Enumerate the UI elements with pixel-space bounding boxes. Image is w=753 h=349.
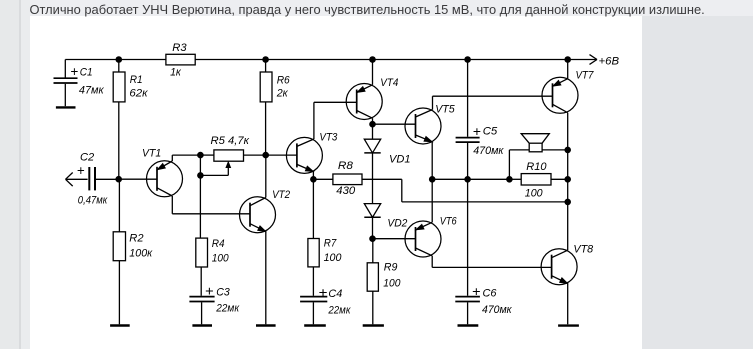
svg-text:VT3: VT3 — [319, 131, 338, 143]
node speaker right column — [565, 147, 571, 153]
label VT8 — [573, 243, 593, 255]
wire VT8 collector to feedback node — [567, 202, 569, 250]
svg-text:R1: R1 — [130, 74, 143, 86]
svg-text:+: + — [70, 64, 78, 79]
wire VT3 emitter to node — [312, 172, 314, 180]
transistor VT4 — [346, 84, 382, 120]
wire C5 column from rail — [467, 60, 469, 137]
wire node to VT5 base — [373, 123, 416, 125]
svg-text:62к: 62к — [129, 87, 148, 99]
svg-text:100: 100 — [383, 277, 401, 289]
node rail-VT7 emitter — [565, 57, 571, 63]
svg-text:C3: C3 — [216, 286, 230, 298]
wire VT8 emitter to ground — [567, 284, 569, 325]
wire N1 to N2 — [199, 155, 201, 175]
svg-text:1к: 1к — [170, 67, 181, 79]
svg-text:VD1: VD1 — [389, 153, 411, 165]
resistor R1 — [113, 60, 125, 180]
wire VT1 emitter to node N1 — [172, 155, 200, 161]
label R6 value — [276, 74, 291, 99]
label C6 value — [472, 284, 512, 316]
svg-text:100: 100 — [324, 252, 342, 264]
svg-text:VT1: VT1 — [142, 148, 161, 160]
capacitor C3 — [189, 297, 214, 325]
input terminal arrow — [66, 173, 88, 187]
ground R2 — [110, 324, 130, 326]
svg-text:100к: 100к — [129, 247, 152, 259]
capacitor C4 — [300, 297, 327, 325]
power terminal +6V arrow — [590, 55, 598, 65]
label VD2 — [387, 218, 408, 230]
wire VT6 collector to VT8 base — [432, 256, 551, 268]
svg-text:22мк: 22мк — [328, 305, 351, 317]
transistor VT3 — [286, 137, 322, 173]
resistor R2 — [113, 179, 125, 324]
diode VD1 — [364, 124, 380, 203]
transistor VT7 — [542, 77, 578, 113]
svg-text:R4: R4 — [212, 238, 225, 250]
ground R9 — [363, 324, 384, 326]
svg-text:C6: C6 — [483, 287, 498, 299]
label R3 value — [170, 42, 187, 79]
wire N3 to VT3 base — [266, 154, 297, 156]
svg-text:C2: C2 — [80, 152, 95, 164]
label C2 value — [77, 152, 108, 207]
resistor R3 — [166, 54, 195, 65]
svg-text:R8: R8 — [338, 160, 354, 172]
label C5 value — [473, 124, 504, 157]
svg-text:VT2: VT2 — [272, 189, 291, 201]
svg-text:VD2: VD2 — [387, 218, 408, 230]
node rail-R1 — [116, 57, 122, 63]
ground C1 — [56, 106, 76, 108]
svg-text:VT4: VT4 — [380, 77, 398, 89]
svg-text:R3: R3 — [172, 42, 187, 54]
capacitor C2 — [89, 167, 118, 190]
resistor R10 — [509, 174, 567, 185]
node rail-VT4 emitter — [370, 57, 376, 63]
svg-text:C5: C5 — [483, 126, 498, 138]
label R7 value — [324, 238, 342, 265]
capacitor C5 — [456, 138, 480, 296]
ground VT8 emitter — [558, 324, 579, 326]
node VT3 emitter — [311, 177, 317, 183]
speaker BA1 — [509, 134, 567, 152]
svg-text:+6В: +6В — [599, 56, 620, 68]
node VT1 base — [116, 176, 122, 182]
svg-text:VT6: VT6 — [440, 215, 458, 227]
label R8 value — [336, 160, 356, 197]
label R10 value — [525, 161, 547, 200]
node rail-C5 — [465, 57, 471, 63]
node output column feedback — [565, 199, 571, 205]
wire VT4 emitter to rail — [372, 60, 374, 85]
svg-text:C1: C1 — [80, 67, 93, 79]
wire VT2 collector to N3 — [265, 155, 267, 197]
wire R10 node to feedback node — [567, 179, 569, 202]
label +6V — [599, 56, 620, 68]
label R4 value — [212, 238, 229, 265]
wire N2 down to R4 — [199, 175, 201, 238]
node N3 R5 right — [263, 152, 269, 158]
wire speaker left leg — [508, 150, 510, 179]
node C5 column output row — [465, 177, 471, 183]
svg-text:2к: 2к — [276, 88, 289, 100]
svg-text:C4: C4 — [328, 288, 342, 300]
svg-text:+: + — [77, 163, 85, 178]
wire VT1 collector to VT2 base — [172, 196, 250, 214]
wiper arrow of R5 — [200, 162, 230, 175]
wire VT7 emitter to rail — [567, 60, 569, 79]
label VT1 — [142, 148, 161, 160]
resistor R5 trimmer — [200, 150, 265, 161]
label VT2 — [272, 189, 291, 201]
svg-text:R10: R10 — [526, 161, 547, 173]
label C4 value — [318, 285, 351, 317]
node VD2 R9 VT6 base — [370, 236, 376, 242]
node rail-R6 — [263, 57, 269, 63]
label VD1 — [389, 153, 411, 165]
svg-text:+: + — [205, 284, 214, 299]
wire speaker node to R10 node — [567, 150, 569, 179]
transistor VT6 — [405, 221, 441, 257]
svg-text:R9: R9 — [384, 261, 398, 273]
svg-text:+: + — [473, 124, 481, 139]
svg-text:100: 100 — [212, 253, 229, 265]
svg-text:VT7: VT7 — [576, 70, 595, 82]
label C3 value — [205, 284, 240, 315]
svg-text:R7: R7 — [324, 238, 337, 250]
wire VT2 emitter to ground — [265, 232, 267, 325]
label C1 value — [70, 64, 104, 96]
svg-text:100: 100 — [525, 188, 543, 200]
node N2 R5 wiper — [198, 173, 204, 179]
label R9 value — [383, 261, 401, 289]
svg-text:R2: R2 — [129, 233, 144, 245]
node N1 R5 left — [198, 152, 204, 158]
wire VT4 collector to node — [372, 118, 374, 124]
capacitor C6 — [455, 297, 480, 325]
transistor VT1 — [147, 161, 183, 197]
svg-text:0,47мк: 0,47мк — [78, 195, 108, 207]
wire R8 to output column — [402, 179, 568, 202]
ground C4 — [304, 324, 326, 326]
label R1 value — [129, 74, 148, 99]
wire VT6 emitter to output node — [431, 179, 433, 222]
svg-text:R6: R6 — [277, 74, 291, 86]
resistor R4 — [196, 238, 208, 296]
ground VT2 emitter — [256, 324, 276, 326]
transistor VT8 — [541, 249, 577, 285]
label R2 value — [129, 233, 152, 260]
capacitor C1 — [54, 60, 78, 107]
transistor VT5 — [405, 108, 441, 144]
transistor VT2 — [240, 197, 276, 233]
svg-text:470мк: 470мк — [482, 304, 512, 316]
wire +6V rail — [65, 59, 597, 61]
node speaker left leg — [507, 177, 513, 183]
node VT4 collector VD1 — [370, 121, 376, 127]
svg-text:22мк: 22мк — [215, 303, 239, 315]
svg-text:+: + — [318, 285, 327, 300]
resistor R6 — [260, 60, 272, 156]
label VT3 — [319, 131, 338, 143]
node VT5 VT6 emitters — [429, 177, 435, 183]
wire VT5 emitter to output node — [431, 142, 433, 180]
node R10 right — [565, 177, 571, 183]
ground C6 — [458, 324, 479, 326]
resistor R9 — [367, 239, 378, 325]
wire VT6 base from node — [373, 238, 416, 240]
svg-text:VT5: VT5 — [435, 104, 455, 116]
label R5 value — [211, 135, 250, 147]
svg-text:470мк: 470мк — [473, 145, 504, 157]
resistor R8 — [313, 174, 401, 185]
label VT4 — [380, 77, 398, 89]
diode VD2 — [364, 204, 380, 239]
svg-text:+: + — [472, 284, 481, 299]
svg-text:VT8: VT8 — [573, 243, 593, 255]
wire VT3 collector to VT4 base — [314, 102, 357, 139]
label VT7 — [576, 70, 595, 82]
label VT5 — [435, 104, 455, 116]
wire VT7 collector to speaker node — [567, 113, 569, 150]
ground C3 — [192, 324, 212, 326]
wire base node to VT1 — [119, 178, 157, 180]
svg-text:430: 430 — [336, 185, 356, 197]
svg-text:R5 4,7к: R5 4,7к — [211, 135, 250, 147]
wire VT5 collector to VT7 base — [433, 96, 553, 109]
resistor R7 — [308, 179, 319, 295]
svg-text:47мк: 47мк — [79, 84, 104, 96]
label VT6 — [440, 215, 458, 227]
wire output row — [432, 178, 509, 180]
